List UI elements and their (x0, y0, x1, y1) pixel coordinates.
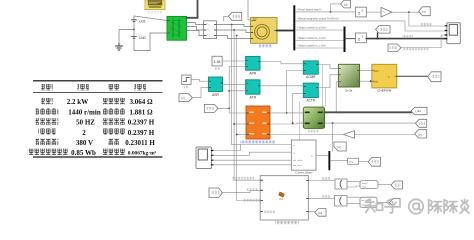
wire ASR to ATR (223, 83, 246, 85)
table top rule (33, 80, 163, 81)
svg-text:0.85 Wb: 0.85 Wb (71, 149, 96, 157)
wire mux3 out (330, 160, 347, 162)
svg-text:Current_Model: Current_Model (295, 170, 313, 174)
wire [n] to ASR (192, 88, 208, 98)
svg-text:CHBPWM: CHBPWM (377, 89, 392, 93)
pulses wire into bridge gate (thick) (187, 0, 198, 18)
wire Teta to subsystem (222, 190, 260, 192)
svg-text:0.2397 H: 0.2397 H (128, 119, 155, 127)
svg-text:2.2 kW: 2.2 kW (67, 98, 88, 106)
svg-text:<Stator current is_a (A)>: <Stator current is_a (A)> (297, 26, 327, 30)
wire current model to mux (316, 154, 328, 156)
Psi feedback riser to APR/ATR (229, 67, 245, 109)
constant flux reference 1.48 (212, 56, 222, 66)
atan block 1 (360, 181, 378, 189)
svg-text:K*u: K*u (349, 160, 354, 164)
wire to goto psi (359, 160, 369, 162)
wire to goto Teta (378, 184, 391, 186)
machine label 异步电机 (259, 44, 272, 47)
svg-text:Psi: Psi (280, 197, 284, 201)
watermark 乎 (385, 199, 400, 213)
branch down to scope input 1 (409, 12, 446, 26)
feedback vertical wire ic (236, 36, 238, 201)
From tag flux (388, 44, 401, 52)
svg-text:380 V: 380 V (76, 139, 93, 147)
watermark 知 (365, 199, 375, 212)
row1 功率 2.2 kW 定子电阻 3.064 Ω (41, 98, 52, 104)
universal bridge (IGBT inverter) (167, 16, 187, 40)
watermark 陈 (2) (444, 200, 457, 214)
load torque wire from top (248, 0, 251, 20)
CHBPWM hysteresis PWM block (372, 64, 397, 88)
wire gain to goto (392, 11, 419, 13)
wire step to ASR (191, 80, 208, 82)
svg-text:<Rotor speed (wm)>: <Rotor speed (wm)> (297, 8, 322, 12)
svg-text:0.23011 H: 0.23011 H (125, 139, 155, 147)
svg-text:[N]: [N] (318, 211, 322, 215)
junction nodes for feedback taps (231, 24, 233, 26)
table header rule (33, 91, 163, 94)
goto tag iabc above (376, 26, 391, 33)
thick iabc trunk to goto (325, 111, 411, 113)
row6 转子磁链参考值 0.85 Wb 转动惯量 0.0067kg·m² (28, 149, 68, 155)
demux1 outs to atan block (347, 182, 360, 187)
table bottom rule (33, 156, 163, 157)
wire flux tag to scope input 3 (401, 35, 446, 48)
From tag [Pulses] (228, 12, 241, 20)
wire DC- to bridge (134, 33, 167, 51)
svg-text:[n]: [n] (419, 132, 423, 136)
svg-text:ATR: ATR (250, 95, 257, 99)
mux bar 3 (328, 151, 330, 170)
DC voltage source Ud1 (132, 20, 137, 22)
ACTR current regulator T (303, 83, 318, 98)
wires into subsystem (234, 179, 260, 181)
svg-text:1.48: 1.48 (214, 60, 221, 64)
flux observer subsystem (big) (260, 176, 308, 220)
unit delay z2 (356, 33, 367, 43)
green out2 wire to goto theta (325, 122, 416, 124)
stator current wires into mux (295, 30, 343, 48)
junction midpoint (133, 29, 135, 31)
From tag [n] near current model (334, 142, 346, 151)
theta riser into 2r3s (336, 82, 338, 113)
svg-text:1440 r/min: 1440 r/min (68, 108, 101, 116)
wire ACMR to 2r3s (318, 65, 338, 69)
svg-text:APR: APR (249, 72, 257, 76)
svg-text:atan2: atan2 (362, 182, 368, 185)
DC voltage source Ud0 (132, 36, 137, 38)
goto tag [pulses] (428, 72, 441, 82)
svg-text:[n]: [n] (344, 3, 348, 7)
row5 额定电压 380 V 互感 0.23011 H (36, 139, 59, 145)
torque wire to scope input 2 (295, 21, 445, 31)
ASR speed regulator (209, 77, 223, 92)
demux 1 (335, 179, 347, 189)
scope2 wires to current model (213, 145, 291, 151)
wire ACTR to 2r3s (318, 75, 338, 88)
feedback vertical wire ib (233, 30, 235, 180)
svg-text:1.881 Ω: 1.881 Ω (129, 108, 153, 116)
ATR torque regulator (246, 80, 260, 94)
current reference subsystem (green) (303, 107, 324, 128)
step block n* (182, 75, 191, 84)
branch up to goto [n] (331, 4, 341, 12)
complex block 2 (360, 197, 377, 207)
wire mux to z2 (346, 38, 356, 40)
goto tag i_abc (411, 107, 427, 114)
rotor speed wire (295, 11, 355, 13)
Psi wire down to observer input (229, 108, 246, 113)
orange out1 to green block (270, 112, 303, 114)
wire label 三相电流 (402, 35, 413, 38)
wire out (377, 201, 390, 203)
svg-text:<Electromagnetic torque Te (N*: <Electromagnetic torque Te (N*m)> (297, 17, 340, 21)
svg-text:[n]: [n] (338, 145, 342, 149)
From tag [n] left (179, 94, 192, 102)
svg-text:[n]: [n] (422, 10, 426, 14)
wires measurement to machine (217, 25, 251, 27)
orange out3 to mirrored gain (270, 134, 344, 136)
svg-text:Tm: Tm (253, 17, 257, 21)
orange out2 to green block (270, 122, 303, 125)
DC bus vertical wire (133, 16, 135, 45)
goto tag [n] bottom (415, 130, 427, 138)
svg-text:Ud0: Ud0 (139, 36, 146, 40)
goto tag Teta2 (391, 181, 403, 189)
svg-text:<Stator current is_b (A)>: <Stator current is_b (A)> (297, 36, 327, 40)
svg-text:3.064 Ω: 3.064 Ω (129, 98, 153, 106)
isd feedback riser (287, 71, 304, 113)
goto tag [n] top (341, 0, 351, 8)
wire label 磁链 (403, 47, 429, 50)
gain (rad/s to rpm) (381, 7, 392, 17)
svg-text:0.0067kg·m²: 0.0067kg·m² (128, 151, 157, 157)
svg-text:[n]: [n] (182, 96, 186, 100)
wire gain to goto n (355, 134, 415, 136)
row3 额定频率 50 HZ 定子电感 0.2397 H (36, 118, 59, 124)
wire ATR to ACTR (260, 85, 303, 87)
From tag [Teta] (209, 188, 222, 197)
subsystem icon (279, 192, 285, 197)
watermark 陈 (1) (429, 200, 442, 214)
watermark @ (409, 199, 423, 213)
wire Psi to junction (218, 107, 229, 109)
goto tag psi2 (390, 199, 401, 207)
feedback vertical wire ia (231, 25, 233, 145)
demux2 outs (347, 197, 360, 203)
vertical aux wire (299, 102, 301, 141)
wire z1 to gain (366, 11, 381, 13)
svg-text:2r-3s: 2r-3s (345, 88, 353, 92)
wires bridge to measurement (187, 23, 204, 25)
header 量名 参数 量名 参数 (41, 84, 52, 90)
subsystem out1 to demux1 (308, 180, 335, 182)
From tag [Psi] (204, 104, 218, 112)
wires 2r3s to CHBPWM (360, 70, 372, 72)
observer label 磁链观测 (240, 140, 275, 143)
svg-text:ACMR: ACMR (306, 75, 316, 79)
goto tag psi (368, 157, 380, 166)
svg-text:pSi_alpha: pSi_alpha (293, 160, 304, 162)
row2 额定转速 1440 r/min 转子电阻 1.881 Ω (36, 108, 59, 114)
2r/3s rotation transform block (338, 64, 359, 87)
asynchronous machine block (251, 18, 278, 44)
subsystem label (275, 221, 299, 224)
svg-text:ACTR: ACTR (306, 98, 315, 102)
unit delay z1 (356, 7, 367, 17)
svg-text:0.2397 H: 0.2397 H (128, 129, 155, 137)
watermark 炎 (461, 199, 469, 206)
wire APR to ACMR (260, 62, 303, 64)
svg-text:<Stator current is_c (A)>: <Stator current is_c (A)> (297, 44, 327, 48)
powergui block (145, 0, 165, 10)
svg-text:ASR: ASR (212, 93, 220, 97)
svg-text:m: m (311, 156, 313, 158)
isq feedback riser (293, 94, 304, 124)
Current_Model block (291, 140, 316, 170)
wire constant to APR (222, 60, 245, 62)
mux bar (344, 27, 346, 53)
goto tag theta (415, 119, 426, 127)
subsystem out3 to goto N (308, 211, 314, 213)
scope2 (mirrored) (196, 147, 212, 169)
machine output bus (thick) (277, 30, 293, 32)
small gain block (348, 158, 359, 164)
thick iabc wire to scope (366, 38, 445, 40)
ground (116, 44, 123, 51)
row4 极对数 2 转子电感 0.2397 H (39, 129, 56, 135)
svg-text:50 HZ: 50 HZ (76, 119, 95, 127)
mirrored gain (344, 131, 355, 139)
wire DC+ to bridge (134, 16, 167, 21)
svg-text:Ud1: Ud1 (139, 20, 146, 24)
pulses wire to goto (397, 75, 428, 77)
scope block (447, 23, 461, 44)
ACMR current regulator M (303, 61, 318, 74)
subsystem out2 to demux2 (308, 197, 334, 199)
bus selector bar (293, 5, 295, 50)
demux 2 (334, 196, 347, 206)
wire to ground (119, 30, 134, 44)
APR flux regulator (246, 56, 260, 70)
svg-text:pSi_beta: pSi_beta (293, 164, 302, 167)
svg-text:2: 2 (82, 129, 86, 137)
flux observer block (orange) (246, 106, 270, 139)
goto tag [N] (315, 209, 326, 217)
goto tag [n] right (419, 7, 431, 16)
svg-text:iabc*: iabc* (374, 70, 379, 73)
input wire labels (232, 177, 254, 180)
three-phase V-I measurement block (204, 21, 217, 39)
svg-text:i_abc: i_abc (415, 109, 422, 113)
orange input wires from feedback verticals (234, 123, 246, 125)
wire label 转速n (421, 23, 432, 26)
